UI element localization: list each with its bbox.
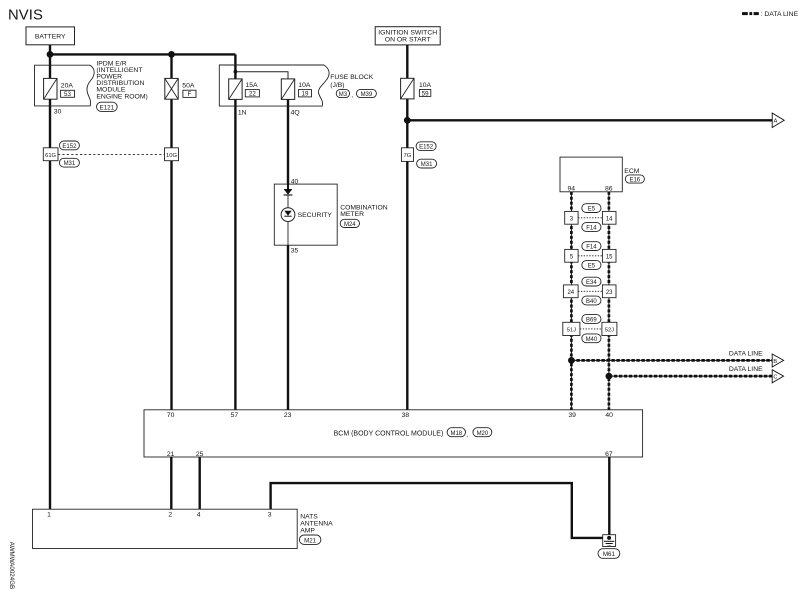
svg-text:BATTERY: BATTERY: [35, 33, 66, 40]
svg-text:BCM (BODY CONTROL MODULE): BCM (BODY CONTROL MODULE): [334, 430, 444, 437]
svg-text:ENGINE ROOM): ENGINE ROOM): [96, 93, 147, 100]
internal link wire in fuse block: [235, 72, 288, 80]
svg-text:NATS: NATS: [300, 514, 318, 521]
connector oval B69 (row4): [582, 315, 601, 324]
svg-text:DATA LINE: DATA LINE: [729, 350, 763, 357]
connector row 5/15: dotted link: [578, 255, 602, 257]
connector oval E121: [97, 102, 118, 111]
svg-text:NVIS: NVIS: [8, 8, 43, 24]
svg-text:ANTENNA: ANTENNA: [300, 521, 333, 528]
wire W1 battery feed down: [49, 54, 51, 79]
connector oval M39: [356, 89, 376, 98]
svg-text:,: ,: [466, 432, 468, 439]
fuse 20A (IPDM): [44, 78, 75, 99]
svg-text:M18: M18: [450, 431, 462, 437]
svg-text:86: 86: [605, 185, 613, 192]
junction dot 50A/bus: [168, 51, 175, 58]
svg-text:61G: 61G: [45, 153, 56, 159]
svg-text:57: 57: [231, 412, 239, 419]
svg-text:B: B: [773, 359, 777, 365]
svg-text:51J: 51J: [567, 328, 576, 334]
fusible link 50A: [165, 78, 196, 99]
svg-text:E16: E16: [629, 177, 640, 183]
connector oval M20: [473, 428, 492, 437]
fuse block box outline: [219, 65, 329, 106]
arrow C: [772, 370, 783, 383]
svg-text:M61: M61: [603, 551, 616, 558]
NATS label: [300, 514, 333, 535]
connector 24: [563, 285, 578, 298]
svg-text:,: ,: [351, 92, 353, 99]
fuse 15A: [229, 79, 260, 100]
connector oval M61: [598, 549, 620, 559]
connector row 51J/52J: dotted link: [580, 328, 603, 330]
svg-text:22: 22: [249, 91, 256, 98]
connector 5: [565, 249, 578, 262]
svg-text:20A: 20A: [61, 82, 74, 89]
wire W2 50A feed down: [170, 54, 172, 79]
connector oval E34 (row3): [582, 277, 601, 286]
connector oval E5 (row2): [582, 261, 601, 270]
connector 51J: [563, 322, 580, 335]
wire battery to bus: [49, 45, 51, 55]
wire BCM 67 to ground: [608, 457, 610, 535]
arrow A: [772, 113, 784, 127]
svg-text:M40: M40: [586, 337, 598, 343]
ECM box: [560, 157, 622, 192]
battery box: [26, 27, 75, 45]
svg-text:14: 14: [606, 217, 613, 223]
svg-text:ECM: ECM: [624, 168, 639, 175]
svg-text:F: F: [188, 91, 192, 98]
svg-text:F14: F14: [586, 245, 597, 251]
connector 7G: [401, 148, 413, 162]
bus wire horizontal: [50, 53, 235, 55]
svg-text:B69: B69: [586, 318, 597, 324]
connector 61G: [43, 148, 58, 161]
ignition switch box: [375, 27, 440, 45]
connector oval B40 (row3): [582, 296, 601, 305]
junction dot data line B: [568, 357, 575, 364]
junction dot in fuse block: [234, 70, 238, 74]
connector oval M40 (row4): [582, 334, 601, 343]
svg-text:M20: M20: [477, 431, 489, 437]
wire into meter: [287, 184, 289, 189]
svg-text:E34: E34: [586, 280, 597, 286]
svg-text:A: A: [774, 119, 778, 125]
svg-text:53: 53: [64, 91, 71, 98]
connector 52J: [602, 322, 617, 335]
connector 10G: [165, 148, 179, 161]
svg-text:7G: 7G: [404, 153, 412, 159]
connector oval E152 (ignition): [416, 142, 436, 151]
svg-text:4: 4: [197, 511, 201, 518]
connector 15: [602, 249, 616, 262]
connector oval M18: [447, 428, 465, 437]
IPDM E/R box outline: [35, 65, 95, 106]
wire diode to LED: [287, 195, 289, 208]
svg-text:70: 70: [167, 412, 175, 419]
connector oval F14 (row2): [582, 242, 601, 251]
data line horizontal to arrow B: [571, 359, 772, 361]
junction dot ignition/arrow A: [404, 117, 411, 124]
svg-text:E152: E152: [62, 144, 77, 150]
svg-text:1N: 1N: [238, 110, 247, 117]
svg-text:15: 15: [606, 255, 613, 261]
legend data line symbol: [742, 11, 799, 18]
svg-text:1: 1: [47, 511, 51, 518]
connector oval F14 (row1): [582, 223, 601, 232]
svg-text:10G: 10G: [166, 153, 177, 159]
connector oval M31 (ignition): [417, 159, 437, 168]
svg-text:30: 30: [54, 108, 62, 115]
svg-text:DATA LINE: DATA LINE: [729, 366, 763, 373]
data line horizontal to arrow C: [609, 375, 772, 377]
svg-text:4Q: 4Q: [291, 110, 300, 117]
wire bus into fuse block: [234, 54, 236, 79]
svg-text:3: 3: [268, 511, 272, 518]
svg-text:24: 24: [567, 290, 574, 296]
junction dot battery/bus: [47, 51, 54, 58]
svg-text:M39: M39: [361, 92, 373, 98]
NATS antenna amp box: [33, 509, 298, 548]
connector oval E152 (left): [59, 141, 79, 150]
combination meter box: [274, 184, 337, 245]
svg-text:C: C: [773, 375, 777, 381]
svg-text:METER: METER: [340, 211, 364, 218]
svg-text:2: 2: [168, 511, 172, 518]
svg-text:AMP: AMP: [300, 528, 315, 535]
svg-text:52J: 52J: [605, 328, 614, 334]
svg-text:M24: M24: [344, 222, 356, 228]
svg-text:38: 38: [402, 412, 410, 419]
wire NATS 3 to ground: [271, 483, 603, 538]
svg-text:50A: 50A: [182, 82, 195, 89]
wire BCM 21 to NATS 2: [170, 457, 172, 509]
connector 23: [602, 285, 616, 298]
svg-text:(J/B): (J/B): [330, 82, 344, 89]
svg-text:94: 94: [568, 185, 576, 192]
svg-text:35: 35: [291, 247, 299, 254]
data line wire left (ECM 94 to BCM 39): [570, 192, 572, 410]
svg-text:15A: 15A: [246, 82, 259, 89]
svg-text:IGNITION SWITCH: IGNITION SWITCH: [378, 29, 437, 36]
svg-text:M3: M3: [339, 92, 348, 98]
svg-text:23: 23: [606, 290, 613, 296]
connector oval E16: [625, 175, 644, 184]
wire 1N down to BCM: [234, 99, 236, 410]
svg-text:E152: E152: [419, 145, 434, 151]
svg-text:19: 19: [302, 91, 309, 98]
svg-text:10A: 10A: [298, 82, 311, 89]
svg-text:E5: E5: [588, 264, 596, 270]
connector oval M21: [299, 535, 321, 544]
connector oval M24: [340, 219, 359, 228]
junction dot data line C: [606, 373, 613, 380]
data line wire right (ECM 86 to BCM 40): [608, 192, 610, 410]
wire LED to box bottom: [287, 222, 289, 246]
fuse 10A ignition: [401, 78, 432, 99]
connector 3: [565, 211, 578, 224]
ground M61: [603, 535, 616, 547]
svg-text:ON OR START: ON OR START: [385, 36, 431, 43]
connector row 3/14: dotted link: [578, 217, 602, 219]
svg-text:E121: E121: [99, 104, 114, 111]
svg-text:40: 40: [605, 412, 613, 419]
connector oval E5 (row1): [582, 204, 601, 213]
wire BCM 25 to NATS 4: [198, 457, 200, 509]
svg-text:M31: M31: [421, 162, 433, 168]
connector oval M3: [336, 89, 353, 98]
svg-text:FUSE BLOCK: FUSE BLOCK: [330, 74, 374, 81]
wire 4Q down to meter: [287, 99, 289, 185]
svg-text:39: 39: [568, 412, 576, 419]
wire meter to BCM: [287, 245, 289, 410]
svg-text:F14: F14: [586, 226, 597, 232]
diode symbol: [284, 189, 293, 195]
fuse 10A: [281, 79, 311, 100]
BCM box: [144, 410, 643, 458]
svg-text:B40: B40: [586, 299, 597, 305]
svg-text:10A: 10A: [419, 82, 432, 89]
LED security indicator: [281, 208, 295, 222]
svg-text:M21: M21: [304, 537, 317, 544]
svg-text:AWMWA0024GB: AWMWA0024GB: [8, 542, 15, 589]
svg-text:23: 23: [284, 412, 292, 419]
svg-text:E5: E5: [588, 207, 596, 213]
svg-text:59: 59: [422, 90, 429, 97]
IPDM label text: [96, 60, 147, 100]
svg-text:M31: M31: [64, 161, 76, 167]
svg-text:SECURITY: SECURITY: [298, 212, 333, 219]
arrow B: [772, 354, 783, 367]
fuse block label: [330, 74, 374, 89]
wire ignition down: [406, 45, 408, 79]
combination meter label: [340, 205, 388, 219]
svg-text:: DATA LINE: : DATA LINE: [761, 11, 799, 18]
wire ignition to arrow A: [407, 119, 772, 121]
connector row 24/23: dotted link: [578, 290, 602, 292]
connector 14: [602, 211, 616, 224]
connector oval M31 (left): [59, 158, 79, 167]
dashed connector link 61G-10G: [58, 154, 165, 156]
